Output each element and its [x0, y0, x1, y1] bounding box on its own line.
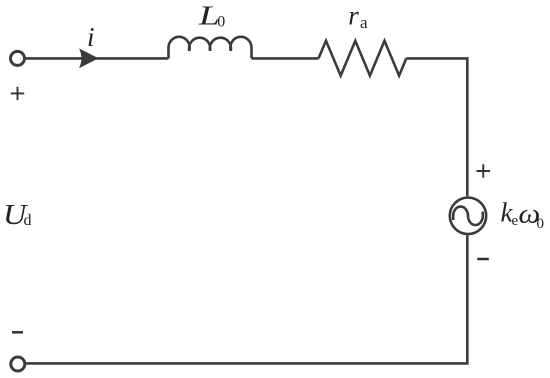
svg-text:0: 0 [217, 14, 225, 31]
svg-text:a: a [360, 13, 368, 32]
svg-text:r: r [348, 1, 359, 31]
svg-text:0: 0 [537, 216, 545, 232]
svg-text:d: d [24, 212, 32, 229]
svg-text:i: i [87, 22, 95, 52]
